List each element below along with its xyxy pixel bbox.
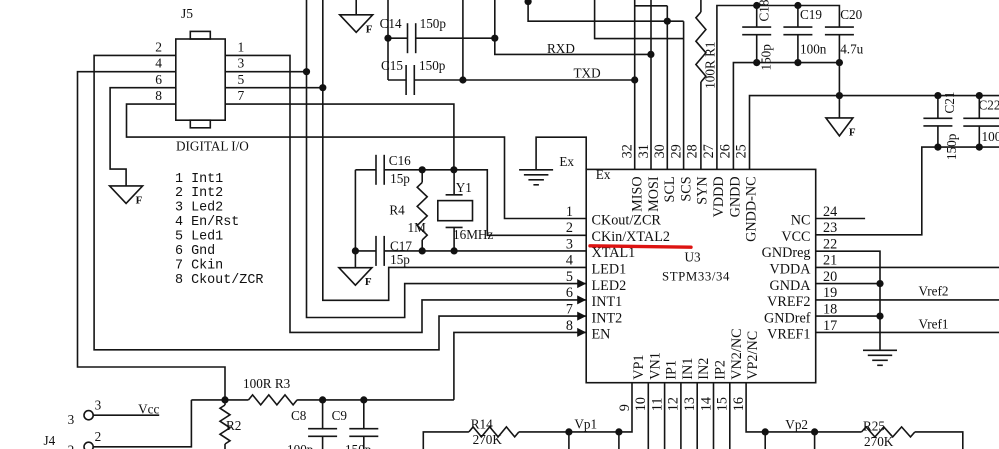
- svg-text:11: 11: [649, 398, 665, 412]
- svg-text:30: 30: [652, 144, 668, 158]
- ground (J5 pin6): [110, 186, 143, 204]
- svg-text:24: 24: [823, 204, 837, 220]
- wire GNDD-NC (pin 25): [750, 96, 999, 170]
- svg-text:150p: 150p: [345, 442, 372, 449]
- svg-text:6: 6: [566, 285, 573, 301]
- wire C17 row to XTAL1: [355, 250, 376, 252]
- svg-text:RXD: RXD: [547, 41, 575, 56]
- J4 pin 2 circle: [84, 442, 93, 449]
- wire J5 pin6 to ground: [110, 88, 176, 186]
- wire VDDD (pin 27) to caps: [717, 6, 840, 170]
- svg-text:100R R3: 100R R3: [243, 376, 291, 391]
- svg-text:VREF2: VREF2: [767, 294, 810, 310]
- junction: [631, 76, 638, 83]
- junction: [836, 92, 843, 99]
- svg-text:3: 3: [566, 236, 573, 252]
- wire Vp1 stub down 1: [568, 432, 570, 449]
- svg-text:F: F: [365, 276, 372, 288]
- capacitor C16: [375, 155, 377, 185]
- svg-text:4: 4: [155, 56, 162, 71]
- wire Vp2 stub down 2: [814, 432, 816, 449]
- svg-text:INT1: INT1: [592, 294, 623, 310]
- svg-text:Vp2: Vp2: [785, 417, 808, 432]
- svg-text:CKout/ZCR: CKout/ZCR: [592, 213, 662, 229]
- svg-text:100n: 100n: [800, 42, 827, 57]
- svg-text:2 Int2: 2 Int2: [175, 186, 223, 201]
- wire riser to SCL: [528, 1, 684, 21]
- junction: [459, 76, 466, 83]
- junction: [419, 247, 426, 254]
- node Vp1: [519, 383, 632, 432]
- junction: [762, 428, 769, 435]
- wire VP1 (pin 9) row: [423, 432, 469, 449]
- svg-text:16: 16: [731, 397, 747, 411]
- junction: [384, 35, 391, 42]
- svg-text:VN2/NC: VN2/NC: [729, 328, 745, 379]
- svg-text:29: 29: [668, 144, 684, 158]
- U3 bottom pin labels: [631, 328, 761, 379]
- svg-text:3: 3: [95, 398, 102, 413]
- svg-text:C19: C19: [800, 7, 822, 22]
- svg-text:3 Led2: 3 Led2: [175, 201, 223, 216]
- svg-text:18: 18: [823, 302, 837, 318]
- wire J5 pin3 to U3 LED2: [225, 71, 306, 73]
- U3 top pin numbers 32-25: [620, 144, 750, 158]
- resistor R4: [417, 182, 427, 240]
- svg-text:F: F: [366, 23, 373, 35]
- wire MOSI (pin 31): [650, 0, 652, 169]
- svg-text:6 Gnd: 6 Gnd: [175, 244, 215, 259]
- svg-text:J5: J5: [181, 6, 193, 21]
- svg-text:15p: 15p: [390, 252, 410, 267]
- capacitor C18: [756, 6, 758, 28]
- wire TXD riser: [462, 0, 464, 80]
- capacitor C19: [797, 6, 799, 28]
- U3 top pin labels: [630, 176, 760, 242]
- svg-text:Vref2: Vref2: [919, 284, 949, 299]
- junction: [664, 18, 671, 25]
- svg-text:20: 20: [823, 269, 837, 285]
- ground (C20): [826, 118, 853, 136]
- svg-text:J4: J4: [44, 433, 56, 448]
- svg-text:1: 1: [566, 204, 573, 220]
- svg-text:F: F: [136, 194, 143, 206]
- junction: [303, 68, 310, 75]
- wire to J4 pin2: [93, 400, 191, 447]
- svg-text:32: 32: [620, 144, 636, 158]
- svg-text:1 Int1: 1 Int1: [175, 172, 223, 187]
- ground (top left): [340, 15, 373, 33]
- svg-text:4.7u: 4.7u: [840, 42, 863, 57]
- svg-text:C21: C21: [942, 92, 957, 114]
- ground (crystal): [339, 268, 372, 286]
- resistor R3: [191, 399, 248, 401]
- svg-text:270K: 270K: [864, 434, 894, 449]
- wire SCS (pin 29): [683, 21, 685, 169]
- svg-text:F: F: [849, 126, 856, 138]
- wire GNDreg to ground: [816, 251, 880, 350]
- wire EN net with R3 row: [454, 332, 586, 400]
- wire J5 pin7 Ckin down to crystal node: [225, 104, 454, 170]
- wire SCL (pin 30): [666, 6, 668, 170]
- junction: [976, 144, 983, 151]
- J5 pin numbers 1 3 5 7: [238, 39, 245, 103]
- svg-text:VDDD: VDDD: [711, 176, 727, 217]
- svg-text:5: 5: [566, 269, 573, 285]
- svg-text:2: 2: [68, 443, 75, 449]
- svg-text:100n: 100n: [982, 129, 999, 144]
- ground Ex (IEC): [519, 169, 553, 171]
- svg-text:IP1: IP1: [664, 360, 680, 380]
- svg-text:MISO: MISO: [630, 176, 646, 211]
- node RXD: [495, 0, 651, 54]
- resistor R1: [700, 0, 702, 12]
- junction: [836, 59, 843, 66]
- junction: [976, 92, 983, 99]
- wire C14 left riser: [387, 0, 389, 80]
- svg-text:10: 10: [633, 397, 649, 411]
- svg-text:SYN: SYN: [695, 176, 711, 204]
- svg-text:22: 22: [823, 236, 837, 252]
- svg-text:Vp1: Vp1: [574, 417, 597, 432]
- svg-text:VCC: VCC: [781, 229, 810, 245]
- svg-text:150p: 150p: [759, 44, 774, 71]
- capacitor C8: [322, 400, 324, 429]
- svg-text:Ex: Ex: [559, 154, 574, 169]
- svg-text:1: 1: [238, 39, 245, 54]
- wire MISO-SCL top link: [635, 5, 668, 7]
- junction: [876, 313, 883, 320]
- svg-text:28: 28: [685, 144, 701, 158]
- junction: [525, 0, 532, 5]
- J5 pin legend list: [175, 172, 263, 288]
- svg-text:100p: 100p: [287, 442, 314, 449]
- node Vcc: [93, 414, 159, 416]
- wire stub to ground: [354, 251, 356, 268]
- svg-text:17: 17: [823, 318, 837, 334]
- svg-text:C15: C15: [381, 58, 403, 73]
- svg-text:25: 25: [734, 144, 750, 158]
- svg-text:4: 4: [566, 253, 573, 269]
- svg-text:IN2: IN2: [696, 358, 712, 380]
- svg-text:14: 14: [698, 397, 714, 411]
- svg-text:VREF1: VREF1: [767, 327, 810, 343]
- svg-text:13: 13: [682, 397, 698, 411]
- svg-text:R2: R2: [226, 418, 241, 433]
- svg-text:Vcc: Vcc: [138, 402, 159, 417]
- capacitor C14: [407, 23, 409, 53]
- svg-text:VN1: VN1: [647, 352, 663, 380]
- junction: [794, 59, 801, 66]
- svg-text:VDDA: VDDA: [770, 262, 812, 278]
- U3 right pin labels: [762, 213, 812, 343]
- svg-text:26: 26: [717, 144, 733, 158]
- capacitor C22: [978, 96, 980, 119]
- svg-text:31: 31: [636, 144, 652, 158]
- J5 pin numbers 2 4 6 8: [155, 39, 162, 103]
- svg-text:NC: NC: [791, 213, 811, 229]
- junction: [876, 280, 883, 287]
- svg-text:GNDD-NC: GNDD-NC: [744, 176, 760, 241]
- svg-text:100R R1: 100R R1: [703, 42, 718, 89]
- svg-text:Y1: Y1: [456, 180, 472, 195]
- wire J5 pin2 to U3 INT2: [94, 55, 586, 349]
- svg-text:C9: C9: [332, 408, 348, 423]
- svg-text:LED1: LED1: [592, 262, 627, 278]
- wire VCC rail: [816, 147, 999, 235]
- svg-text:LED2: LED2: [592, 278, 627, 294]
- svg-text:GNDreg: GNDreg: [762, 245, 811, 261]
- wire top stub: [355, 0, 357, 15]
- svg-text:GNDA: GNDA: [770, 278, 812, 294]
- op-amp U3 STPM33/34 body: [586, 169, 816, 382]
- wire GNDref (pin 18): [816, 315, 880, 317]
- capacitor C17: [375, 236, 377, 266]
- junction: [934, 92, 941, 99]
- junction: [934, 144, 941, 151]
- svg-text:7: 7: [238, 88, 245, 103]
- svg-text:VP2/NC: VP2/NC: [745, 331, 761, 380]
- U3 right pin numbers 24-17: [823, 204, 837, 334]
- U3 CKin/XTAL2 red underline: [590, 246, 691, 247]
- capacitor C20: [838, 26, 840, 29]
- svg-text:19: 19: [823, 285, 837, 301]
- junction: [753, 2, 760, 9]
- junction: [319, 396, 326, 403]
- resistor R2: [224, 400, 226, 405]
- svg-text:8: 8: [155, 88, 162, 103]
- junction: [352, 247, 359, 254]
- wire NC stub (pin 24): [816, 218, 865, 220]
- svg-text:C20: C20: [840, 7, 862, 22]
- capacitor C21: [937, 96, 939, 119]
- wire riser to SCS: [595, 0, 684, 39]
- junction: [451, 247, 458, 254]
- svg-text:VP1: VP1: [631, 354, 647, 379]
- junction: [565, 428, 572, 435]
- svg-text:C8: C8: [291, 408, 307, 423]
- svg-text:IN1: IN1: [680, 358, 696, 380]
- svg-text:EN: EN: [592, 327, 611, 343]
- resistor R14: [469, 427, 519, 437]
- wire GNDD (pin 26) to caps: [733, 63, 839, 170]
- junction: [419, 166, 426, 173]
- U3 left pin numbers 1-8: [566, 204, 573, 334]
- svg-text:270K: 270K: [473, 432, 503, 447]
- svg-text:C18: C18: [757, 0, 772, 22]
- wire Vp2 stub down 1: [764, 432, 766, 449]
- svg-text:TXD: TXD: [574, 66, 601, 81]
- svg-text:2: 2: [566, 220, 573, 236]
- svg-text:Ex: Ex: [596, 167, 611, 182]
- svg-text:C16: C16: [389, 153, 411, 168]
- svg-text:U3: U3: [685, 250, 702, 265]
- svg-text:6: 6: [155, 72, 162, 87]
- wire J5 pin8 to U3 CKout: [127, 104, 587, 218]
- node TXD: [388, 79, 406, 81]
- U3 bottom pin numbers 9-16: [617, 397, 747, 411]
- wire VDDA (pin 21): [816, 266, 999, 268]
- svg-text:5: 5: [238, 72, 245, 87]
- connector J5: [176, 39, 225, 120]
- svg-text:R25: R25: [863, 419, 885, 434]
- wire C16 left link: [354, 170, 356, 251]
- svg-text:23: 23: [823, 220, 837, 236]
- svg-text:GNDD: GNDD: [727, 176, 743, 217]
- junction: [615, 428, 622, 435]
- node Vref2: [816, 299, 999, 301]
- svg-text:15p: 15p: [390, 171, 410, 186]
- svg-text:MOSI: MOSI: [646, 176, 662, 212]
- wire C14 row: [388, 37, 408, 39]
- svg-text:21: 21: [823, 253, 837, 269]
- capacitor C15: [405, 65, 407, 95]
- svg-text:SCS: SCS: [678, 176, 694, 201]
- crystal Y1: [453, 170, 455, 195]
- svg-text:150p: 150p: [420, 16, 447, 31]
- wire R25 right down: [915, 432, 963, 449]
- svg-text:GNDref: GNDref: [764, 310, 811, 326]
- svg-text:SCL: SCL: [662, 176, 678, 202]
- svg-text:15: 15: [715, 397, 731, 411]
- wire J5 pin4 to En/Rst node: [78, 72, 226, 400]
- wire MISO (pin 32): [634, 0, 636, 169]
- svg-text:DIGITAL I/O: DIGITAL I/O: [176, 139, 249, 154]
- svg-text:7 Ckin: 7 Ckin: [175, 259, 223, 274]
- svg-text:3: 3: [238, 56, 245, 71]
- svg-text:2: 2: [155, 39, 162, 54]
- wire GNDA (pin 20): [816, 283, 880, 285]
- svg-text:12: 12: [666, 397, 682, 411]
- svg-text:3: 3: [68, 412, 75, 427]
- svg-text:8: 8: [566, 318, 573, 334]
- svg-text:STPM33/34: STPM33/34: [662, 269, 730, 283]
- wire Ex to ground: [536, 137, 586, 170]
- junction: [647, 51, 654, 58]
- junction: [811, 428, 818, 435]
- svg-text:8 Ckout/ZCR: 8 Ckout/ZCR: [175, 273, 263, 288]
- wire C16 row to CKin/XTAL2: [355, 169, 376, 171]
- svg-text:IP2: IP2: [713, 360, 729, 380]
- svg-text:5 Led1: 5 Led1: [175, 230, 223, 245]
- svg-text:16MHz: 16MHz: [453, 227, 493, 242]
- node Vref1: [816, 331, 999, 333]
- U3 left pin labels: [592, 213, 670, 343]
- svg-text:1M: 1M: [408, 220, 427, 235]
- svg-text:CKin/XTAL2: CKin/XTAL2: [592, 229, 670, 245]
- svg-text:Vref1: Vref1: [919, 317, 949, 332]
- J4 pin 3 circle: [84, 411, 93, 420]
- svg-text:9: 9: [617, 404, 633, 411]
- wire J5 pin1 to U3 INT1: [225, 55, 586, 332]
- U3 pin arrows 5-8: [577, 279, 586, 288]
- wire pins 10-15 down: [648, 383, 730, 449]
- svg-text:R4: R4: [389, 203, 405, 218]
- svg-text:4 En/Rst: 4 En/Rst: [175, 215, 239, 230]
- svg-text:150p: 150p: [419, 58, 446, 73]
- junction: [491, 35, 498, 42]
- svg-text:27: 27: [701, 144, 717, 158]
- junction: [794, 2, 801, 9]
- junction: [753, 59, 760, 66]
- capacitor C9: [363, 400, 365, 429]
- svg-text:INT2: INT2: [592, 310, 623, 326]
- svg-text:C22: C22: [979, 98, 999, 113]
- junction: [360, 396, 367, 403]
- wire VP2 (pin 16) row: [746, 383, 862, 432]
- wire Vp1 stub down 2: [618, 432, 620, 449]
- svg-text:R14: R14: [471, 417, 493, 432]
- svg-text:C14: C14: [380, 16, 402, 31]
- svg-text:7: 7: [566, 302, 573, 318]
- resistor R25: [862, 427, 915, 437]
- svg-text:2: 2: [95, 429, 102, 444]
- wire J5 pin5 to U3 LED1: [225, 87, 323, 89]
- junction: [319, 84, 326, 91]
- junction: [450, 166, 457, 173]
- ground (analog, IEC): [863, 349, 897, 351]
- junction: [221, 396, 228, 403]
